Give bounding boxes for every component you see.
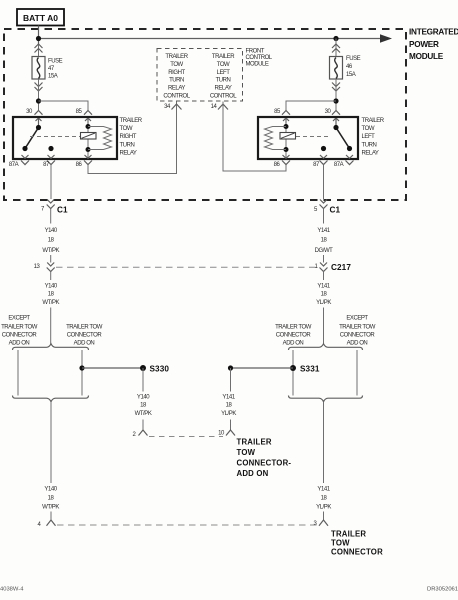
wire label Y140 18 WT/PK (bottom left) (42, 486, 59, 510)
option label except trailer tow (right) (339, 315, 376, 346)
svg-text:CONNECTOR-: CONNECTOR- (237, 458, 292, 467)
wire C217 to split (left) (50, 272, 52, 345)
svg-text:18: 18 (321, 291, 328, 297)
svg-text:CONNECTOR: CONNECTOR (340, 332, 376, 338)
option label trailer tow add on (right) (275, 325, 312, 347)
svg-text:18: 18 (140, 403, 147, 409)
svg-text:46: 46 (346, 64, 353, 70)
svg-text:DR3052061: DR3052061 (427, 586, 458, 592)
svg-text:C217: C217 (331, 263, 351, 272)
svg-text:1: 1 (315, 264, 319, 270)
arrowhead (380, 34, 392, 42)
svg-text:15A: 15A (48, 74, 58, 80)
wire label Y140 18 WT/PK (S330 drop) (135, 394, 152, 417)
relay K2 actuator dashed link (296, 136, 331, 138)
connector C217 left (pin 13) (47, 263, 55, 272)
relay K2 pin 87 connector (320, 155, 328, 165)
svg-text:CONTROL: CONTROL (246, 55, 273, 61)
svg-text:FUSE: FUSE (48, 58, 63, 64)
relay K1 switch arm (22, 125, 53, 151)
svg-text:TURN: TURN (362, 142, 377, 148)
svg-text:RIGHT: RIGHT (168, 70, 185, 76)
svg-text:TOW: TOW (170, 62, 183, 68)
svg-text:ADD ON: ADD ON (237, 469, 269, 478)
svg-text:15A: 15A (346, 72, 356, 78)
split brace bottom right (289, 396, 363, 402)
wire label Y141 18 YL/PK (mid right) (316, 283, 331, 306)
fuse 46 (330, 57, 343, 80)
integrated power module boundary (dashed box) (4, 29, 406, 200)
svg-text:WT/PK: WT/PK (42, 505, 59, 511)
svg-text:2: 2 (133, 432, 137, 438)
svg-text:34: 34 (164, 104, 171, 110)
svg-text:TURN: TURN (169, 78, 184, 84)
svg-text:30: 30 (26, 109, 33, 115)
svg-text:Y141: Y141 (317, 228, 330, 234)
junction left on top bus (36, 36, 41, 41)
trailer tow connector pin 4 (47, 520, 56, 526)
svg-text:TRAILER: TRAILER (120, 118, 143, 124)
svg-text:RELAY: RELAY (168, 86, 185, 92)
option label except trailer tow (left) (1, 315, 38, 346)
svg-text:ADD ON: ADD ON (74, 341, 95, 347)
svg-text:86: 86 (274, 162, 281, 168)
svg-text:ADD ON: ADD ON (283, 341, 304, 347)
connector C217 dashed mating line (56, 266, 317, 268)
svg-text:WT/PK: WT/PK (42, 300, 59, 306)
svg-text:TOW: TOW (120, 126, 133, 132)
connector chevrons below fuse 47 (35, 83, 43, 92)
svg-text:FUSE: FUSE (346, 56, 361, 62)
svg-text:47: 47 (48, 66, 55, 72)
svg-text:TRAILER TOW: TRAILER TOW (66, 325, 103, 331)
add-on connector pin 2 (139, 430, 148, 436)
connector C1 right (pin 5) (320, 200, 328, 209)
svg-text:TRAILER: TRAILER (362, 118, 385, 124)
relay K2 trailer tow left turn relay box (258, 117, 358, 159)
svg-text:18: 18 (48, 291, 55, 297)
svg-text:ADD ON: ADD ON (347, 341, 368, 347)
front control module name label (246, 49, 273, 68)
fuse 46 value label (346, 56, 361, 78)
wire relay K1 pin 87 down to C1 (50, 165, 52, 199)
svg-text:C1: C1 (330, 205, 341, 214)
wire fuse 46 to relay pin 30 (335, 79, 337, 111)
wire left split to trailer tow connector pin 4 (50, 402, 52, 520)
wire C217 to split (right) (323, 272, 325, 345)
svg-text:3: 3 (314, 521, 318, 527)
svg-text:TRAILER TOW: TRAILER TOW (339, 325, 376, 331)
branch wire right-inner (292, 350, 294, 396)
trailer tow connector pin 3 (319, 520, 328, 526)
svg-text:CONTROL: CONTROL (163, 94, 190, 100)
connector C1 left (pin 7) (47, 200, 55, 209)
svg-text:87: 87 (313, 162, 320, 168)
svg-text:18: 18 (48, 237, 55, 243)
junction add-on drop right (228, 365, 233, 370)
svg-text:Y141: Y141 (317, 486, 330, 492)
svg-text:18: 18 (321, 237, 328, 243)
relay K2 name label (362, 118, 385, 157)
svg-text:CONNECTOR: CONNECTOR (276, 332, 312, 338)
wire fuse 47 to relay pin 30 (38, 79, 40, 111)
svg-text:Y140: Y140 (137, 394, 150, 400)
svg-text:WT/PK: WT/PK (135, 411, 152, 417)
wire label Y140 18 WT/PK (upper left) (42, 228, 59, 254)
svg-text:7: 7 (41, 207, 45, 213)
wire branch to relay pin 85 (39, 101, 89, 111)
junction on left-inner branch (79, 365, 84, 370)
svg-text:MODULE: MODULE (409, 52, 444, 61)
split brace top left (13, 344, 89, 350)
svg-text:S330: S330 (150, 365, 170, 374)
wire label Y141 18 DG/WT (315, 228, 334, 254)
FCM pin 14 connector (218, 104, 228, 110)
svg-text:INTEGRATED: INTEGRATED (409, 28, 458, 37)
svg-text:MODULE: MODULE (246, 62, 269, 68)
connector label trailer tow connector (331, 529, 383, 556)
relay K1 coil winding resistor (88, 127, 112, 150)
svg-text:4: 4 (38, 522, 42, 528)
relay K1 pin 87 connector (47, 155, 55, 165)
connector label trailer tow connector add on (237, 437, 292, 478)
wire relay K2 pin 87 down to C1 (323, 165, 325, 199)
svg-text:13: 13 (34, 264, 41, 270)
junction below fuse 46 (333, 98, 338, 103)
splice S331 (290, 365, 296, 371)
svg-text:85: 85 (76, 109, 83, 115)
wire S330 down to add-on connector pin 2 (142, 368, 144, 430)
branch wire right-outer (356, 350, 358, 396)
connector chevrons above fuse 46 (332, 44, 340, 53)
wire branch to relay pin 85 right (286, 101, 336, 111)
wire from BATT A0 down to junction (38, 26, 40, 45)
svg-text:30: 30 (325, 109, 332, 115)
integrated power module label (409, 28, 458, 62)
svg-text:YL/PK: YL/PK (316, 505, 331, 511)
wire right split to trailer tow connector pin 3 (323, 402, 325, 520)
wire junction to fuse 47 (38, 44, 40, 57)
trailer tow connector dashed mating line (57, 524, 317, 526)
relay K2 pin 87A connector (346, 155, 354, 165)
svg-text:Y140: Y140 (45, 283, 58, 289)
split brace top right (289, 344, 363, 350)
svg-text:18: 18 (321, 495, 328, 501)
wire splice S331 to add-on drop (231, 367, 294, 369)
svg-text:RELAY: RELAY (120, 151, 137, 157)
top bus wire with arrow into IPM (39, 38, 382, 40)
relay K1 trailer tow right turn relay box (13, 117, 117, 159)
relay K2 pin 30 connector (332, 111, 340, 128)
svg-text:TRAILER: TRAILER (165, 54, 188, 60)
relay K2 coil winding resistor (265, 127, 287, 150)
option label trailer tow add on (left) (66, 325, 103, 347)
svg-text:87A: 87A (9, 162, 19, 168)
relay K2 pin 86 connector (282, 155, 290, 165)
node BATT A0 (battery feed box) (17, 9, 64, 26)
svg-text:18: 18 (226, 403, 233, 409)
svg-text:C1: C1 (57, 205, 68, 214)
svg-text:Y141: Y141 (222, 394, 235, 400)
fuse 47 value label (48, 58, 63, 79)
relay U1 pin 30 connector (35, 111, 43, 128)
relay K1 actuator dashed link (30, 136, 80, 138)
fuse 47 (32, 57, 45, 80)
front control module boundary (dashed) (157, 49, 243, 102)
connector C217 right (pin 1) (320, 263, 328, 272)
svg-text:TRAILER: TRAILER (331, 529, 366, 538)
svg-text:18: 18 (48, 495, 55, 501)
wire label Y140 18 WT/PK (mid left) (42, 283, 59, 306)
relay K2 switch arm (321, 125, 352, 151)
svg-text:CONNECTOR: CONNECTOR (331, 547, 383, 556)
wire relay K1 pin 86 to FCM pin 34 (88, 102, 177, 174)
svg-text:WT/PK: WT/PK (42, 248, 59, 254)
FCM pin 34 connector (172, 104, 182, 110)
svg-text:DG/WT: DG/WT (315, 248, 334, 254)
relay K1 name label (120, 118, 143, 157)
svg-text:5: 5 (314, 207, 318, 213)
svg-text:TOW: TOW (362, 126, 375, 132)
svg-text:86: 86 (76, 162, 83, 168)
connector chevrons above fuse 47 (35, 44, 43, 53)
svg-text:YL/PK: YL/PK (221, 411, 236, 417)
svg-text:TRAILER TOW: TRAILER TOW (275, 325, 312, 331)
svg-text:CONTROL: CONTROL (210, 94, 237, 100)
relay K1 coil element (81, 118, 97, 158)
svg-text:EXCEPT: EXCEPT (8, 315, 30, 321)
svg-text:87A: 87A (334, 162, 344, 168)
relay K2 pin 85 connector (282, 111, 290, 128)
svg-text:TURN: TURN (120, 142, 135, 148)
svg-text:TOW: TOW (237, 448, 256, 457)
wire C1 to C217 left (50, 209, 52, 263)
junction below fuse 47 (36, 98, 41, 103)
wire FCM pin 14 to relay K2 pin 86 (223, 102, 286, 172)
relay K2 coil element (280, 118, 296, 158)
svg-text:10: 10 (218, 431, 225, 437)
svg-text:LEFT: LEFT (362, 134, 376, 140)
svg-text:BATT A0: BATT A0 (23, 13, 58, 23)
svg-text:FRONT: FRONT (246, 49, 265, 55)
junction right on top bus (333, 36, 338, 41)
svg-text:RELAY: RELAY (362, 151, 379, 157)
wire junction to fuse 46 (335, 39, 337, 58)
svg-text:4038W-4: 4038W-4 (0, 587, 24, 593)
svg-text:85: 85 (274, 109, 281, 115)
svg-text:TRAILER TOW: TRAILER TOW (1, 325, 38, 331)
svg-text:RELAY: RELAY (215, 86, 232, 92)
svg-text:EXCEPT: EXCEPT (346, 315, 368, 321)
svg-text:Y140: Y140 (45, 228, 58, 234)
svg-text:Y141: Y141 (317, 283, 330, 289)
svg-text:14: 14 (211, 104, 218, 110)
FCM output label right turn (163, 54, 190, 100)
svg-text:TOW: TOW (331, 538, 350, 547)
svg-text:POWER: POWER (409, 40, 439, 49)
wire label Y141 18 YL/PK (S331 drop) (221, 394, 236, 417)
svg-text:CONNECTOR: CONNECTOR (67, 332, 103, 338)
svg-text:Y140: Y140 (44, 486, 57, 492)
wire label Y141 18 YL/PK (bottom right) (316, 486, 331, 510)
svg-text:CONNECTOR: CONNECTOR (2, 332, 38, 338)
svg-text:S331: S331 (300, 365, 320, 374)
svg-text:TOW: TOW (217, 62, 230, 68)
relay K1 pin 87A connector (21, 155, 29, 165)
splice S330 (140, 365, 146, 371)
svg-text:ADD ON: ADD ON (9, 341, 30, 347)
add-on connector dashed mating line (149, 436, 223, 438)
branch wire left-inner (81, 350, 83, 396)
relay U1 pin 85 connector (84, 111, 92, 128)
branch wire left-outer (17, 350, 19, 396)
svg-text:TRAILER: TRAILER (212, 54, 235, 60)
relay K1 pin 86 connector (84, 155, 92, 165)
svg-text:RIGHT: RIGHT (120, 134, 137, 140)
wire C1 to C217 right (323, 209, 325, 263)
svg-text:TRAILER: TRAILER (237, 437, 272, 446)
connector chevrons below fuse 46 (332, 83, 340, 92)
wire down to add-on connector pin 10 (230, 368, 232, 430)
add-on connector pin 10 (226, 430, 235, 436)
wire to splice S330 (82, 367, 143, 369)
svg-text:TURN: TURN (216, 78, 231, 84)
split brace bottom left (13, 396, 89, 402)
FCM output label left turn (210, 54, 237, 100)
svg-text:LEFT: LEFT (217, 70, 231, 76)
svg-text:YL/PK: YL/PK (316, 300, 331, 306)
